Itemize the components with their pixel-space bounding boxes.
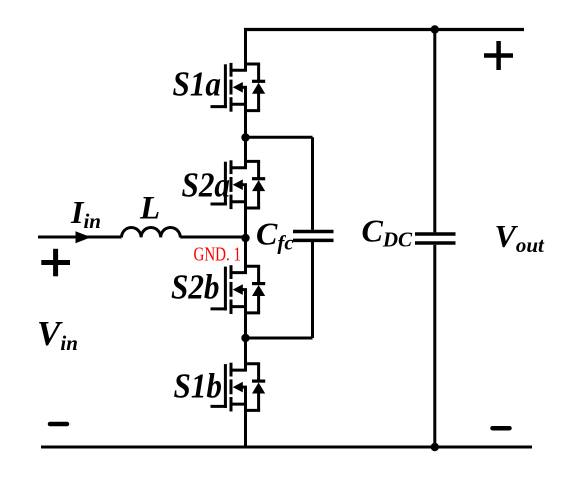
wire inductor to switch node [180, 236, 247, 239]
svg-text:Iin: Iin [70, 194, 101, 233]
svg-text:GND. 1: GND. 1 [194, 244, 242, 266]
wire node A to Cfc top [246, 136, 313, 139]
wire S1b source to bottom rail [244, 404, 247, 448]
svg-text:S1b: S1b [174, 367, 223, 406]
svg-text:S2a: S2a [182, 166, 231, 205]
wire bottom rail [41, 446, 532, 449]
Vout plus mark [484, 41, 513, 70]
transistor S2a (MOSFET with body diode) [211, 160, 266, 209]
top rail CDC junction dot [431, 25, 439, 33]
capacitor CDC [415, 234, 456, 243]
svg-text:L: L [139, 191, 160, 227]
wire drain S1a to top rail [244, 28, 247, 70]
svg-text:S2b: S2b [171, 268, 220, 307]
bottom rail CDC junction dot [431, 443, 439, 451]
transistor S1a (MOSFET with body diode) [211, 63, 266, 112]
svg-text:S1a: S1a [173, 65, 222, 104]
wire S1a source to S2a drain [244, 104, 247, 167]
Vin plus terminal [41, 249, 70, 276]
node B junction dot [241, 334, 249, 342]
wire Vin+ to inductor [38, 236, 122, 239]
transistor S1b (MOSFET with body diode) [211, 363, 266, 412]
svg-text:CDC: CDC [362, 213, 414, 252]
wire Cfc bottom to node B [311, 242, 314, 338]
transistor S2b (MOSFET with body diode) [211, 265, 266, 314]
capacitor Cfc [293, 232, 334, 241]
node A junction dot [241, 133, 249, 141]
wire CDC to bottom rail [433, 245, 436, 447]
wire S2a source to S2b drain [244, 202, 247, 273]
Vout minus mark [493, 426, 510, 431]
svg-text:Vout: Vout [495, 218, 546, 257]
current arrow Iin [76, 231, 92, 243]
switch node junction dot [241, 234, 249, 242]
inductor L [122, 227, 181, 237]
svg-text:Cfc: Cfc [256, 216, 294, 255]
wire S2b source to S1b drain [244, 307, 247, 371]
Vin minus terminal [50, 422, 67, 427]
svg-text:Vin: Vin [37, 314, 78, 355]
wire top rail to CDC [433, 30, 436, 233]
wire top rail [244, 28, 524, 31]
